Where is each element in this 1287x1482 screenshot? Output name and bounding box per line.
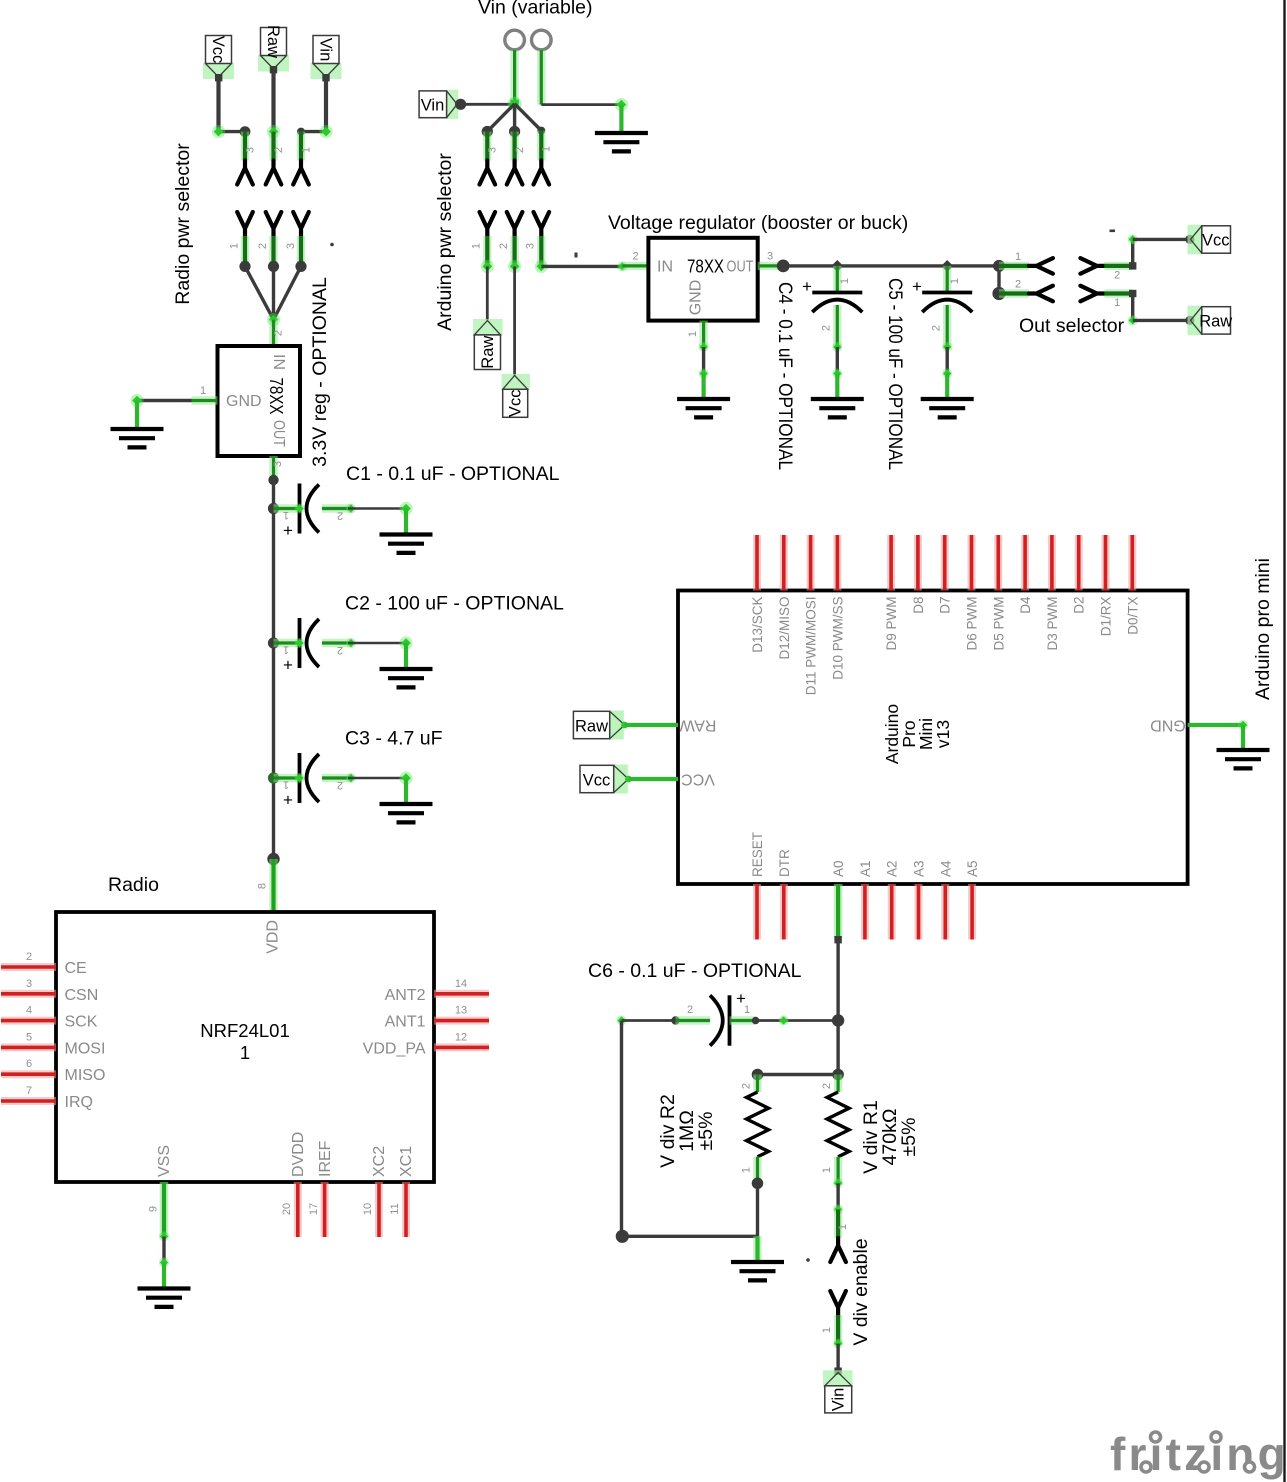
wire node to ground (divider) [753,1236,761,1262]
ground U4 [677,399,730,417]
svg-text:+: + [802,277,812,296]
ground (left 78XX) [111,429,164,447]
net flag Vin (radio selector) [311,36,342,80]
net flag Vcc (arduino left) [580,765,678,794]
node rail end junction [992,260,1005,300]
svg-text:3: 3 [487,147,499,153]
svg-text:Raw: Raw [264,25,282,58]
wire terminal2 down and to ground [541,50,628,133]
svg-text:1: 1 [821,1327,833,1333]
pin 10 XC2 [362,1146,388,1237]
svg-text:+: + [912,277,922,296]
wire R1 to V div enable [833,1183,843,1238]
svg-text:78XX: 78XX [266,378,286,415]
svg-text:3: 3 [525,243,537,249]
wire arduino GND to ground [1188,720,1248,750]
regulator U4 78XX (booster) [622,238,757,321]
capacitor C6 0.1uF polarized [617,989,839,1046]
svg-text:Vin: Vin [317,38,335,62]
svg-text:3: 3 [26,978,32,990]
svg-text:OUT: OUT [727,259,754,276]
svg-text:2: 2 [337,779,343,791]
svg-text:IRQ: IRQ [65,1094,93,1111]
svg-text:2: 2 [821,1083,833,1089]
svg-text:1: 1 [301,147,313,153]
svg-text:1: 1 [283,644,289,656]
ground C1 [380,535,433,553]
svg-text:20: 20 [281,1203,293,1215]
svg-text:Arduino pwr selector: Arduino pwr selector [434,153,456,331]
svg-text:C6 - 0.1 uF - OPTIONAL: C6 - 0.1 uF - OPTIONAL [588,960,802,982]
svg-text:Vin: Vin [830,1388,848,1412]
svg-text:Arduino pro mini: Arduino pro mini [1252,558,1274,700]
svg-text:1: 1 [283,509,289,521]
header J4 arduino selector bottom (3-pin female, forks up) [471,212,550,273]
svg-text:78XX: 78XX [687,257,724,277]
ground divider [731,1262,784,1280]
svg-text:GND: GND [1150,717,1186,734]
svg-text:4: 4 [26,1005,32,1017]
net flag Raw (radio selector) [258,25,289,72]
ground arduino GND [1217,750,1270,768]
connector terminal circle 1 [505,30,525,50]
resistor R1 470k [821,1075,849,1189]
ground C5 [921,399,974,417]
svg-text:GND: GND [226,393,262,410]
svg-text:3: 3 [285,243,297,249]
svg-text:3: 3 [245,147,257,153]
junction node to radio VDD [257,853,280,912]
header J1 radio selector top (3-pin female, forks down) [237,132,312,185]
svg-text:IN: IN [270,354,287,370]
wire Raw flag to header pin 2 [267,66,280,138]
wire GND pin1 to ground (left 78XX) [130,385,217,429]
svg-text:DVDD: DVDD [290,1132,307,1177]
wire R2 bottom to gnd rail [756,1183,759,1236]
svg-text:2: 2 [687,1004,693,1016]
wire to Vin flag (bottom) [834,1344,841,1375]
svg-text:Raw: Raw [479,336,497,369]
header J2 radio selector bottom (3-pin female, forks up) [229,212,334,266]
svg-text:3.3V reg - OPTIONAL: 3.3V reg - OPTIONAL [309,277,331,467]
svg-text:2: 2 [632,251,638,263]
pin 20 DVDD [281,1132,307,1237]
svg-text:ANT1: ANT1 [385,1014,426,1031]
svg-text:13: 13 [455,1005,467,1017]
svg-text:2: 2 [741,1083,753,1089]
pin 14 ANT2 [385,978,489,1004]
wire Vin flag to header pin 1 [297,74,333,138]
svg-text:2: 2 [273,330,285,336]
svg-text:2: 2 [498,243,510,249]
pin 17 IREF [308,1140,334,1237]
svg-text:C4 - 0.1 uF - OPTIONAL: C4 - 0.1 uF - OPTIONAL [774,282,796,470]
wire U4 GND pin1 to ground [687,321,709,399]
pin 7 IRQ [1,1085,93,1111]
wire C6 left leg down and across [616,1021,758,1243]
svg-text:2: 2 [1015,279,1021,291]
capacitor C5 100uF polarized [912,260,972,399]
svg-text:Voltage regulator (booster or: Voltage regulator (booster or buck) [608,212,908,234]
svg-text:11: 11 [389,1203,401,1214]
label R2 [657,1094,717,1168]
svg-text:1: 1 [741,1167,753,1173]
svg-text:9: 9 [148,1206,160,1212]
svg-text:ANT2: ANT2 [385,987,426,1004]
header J7 V div enable pin A (fork down) [830,1238,846,1262]
capacitor C4 0.1uF polarized [802,260,862,399]
svg-text:D10 PWM/SS: D10 PWM/SS [830,597,845,680]
net flag Vin (bottom) [823,1370,853,1413]
svg-text:1: 1 [471,243,483,249]
wire J6 pin2 to Vcc flag [1128,234,1195,269]
svg-text:D8: D8 [911,597,926,614]
svg-text:+: + [283,521,293,540]
wire J4 pin3 to regulator IN [541,253,627,272]
wire OUT pin3 down [268,456,284,859]
svg-text:8: 8 [257,883,269,889]
svg-text:NRF24L01: NRF24L01 [200,1020,289,1041]
pin 2 CE [1,951,87,977]
svg-text:1: 1 [1114,297,1120,309]
resistor R2 1M [741,1075,769,1190]
svg-text:D2: D2 [1072,597,1087,614]
svg-text:fritzing: fritzing [1110,1428,1287,1480]
fritzing watermark [1110,1428,1287,1480]
svg-text:+: + [283,656,293,675]
junction node A0/C6 [832,1014,844,1026]
svg-text:Vcc: Vcc [1202,232,1230,250]
svg-text:1: 1 [200,385,206,397]
svg-text:D6 PWM: D6 PWM [965,597,980,651]
svg-text:1: 1 [229,243,241,249]
svg-text:1: 1 [744,1004,750,1016]
svg-text:C1 - 0.1 uF - OPTIONAL: C1 - 0.1 uF - OPTIONAL [346,463,560,485]
svg-text:17: 17 [308,1203,320,1215]
svg-text:5: 5 [26,1031,32,1043]
header J3 arduino selector top (3-pin female, forks down) [480,131,553,185]
ground C3 [380,804,433,822]
svg-text:±5%: ±5% [898,1118,920,1157]
svg-text:Vcc: Vcc [507,390,525,418]
svg-text:XC2: XC2 [371,1146,388,1177]
net flag Vcc (arduino selector) [502,374,530,417]
net flag Vcc (radio selector) [203,36,234,80]
svg-text:2: 2 [514,147,526,153]
svg-text:2: 2 [337,644,343,656]
svg-text:A5: A5 [965,860,980,877]
svg-text:2: 2 [26,951,32,963]
header J5 out selector left (2-pin female, forks right) [999,251,1053,301]
net flag Raw (arduino left) [573,711,678,740]
capacitor C2 100uF polarized [268,618,413,675]
svg-text:D12/MISO: D12/MISO [777,597,792,660]
svg-text:±5%: ±5% [695,1112,717,1151]
svg-text:A4: A4 [938,860,953,877]
wires header J2 converge to regulator IN [239,261,306,326]
wire to divider node [752,1021,844,1081]
svg-text:Out selector: Out selector [1019,315,1125,337]
svg-text:D11 PWM/MOSI: D11 PWM/MOSI [804,597,819,696]
svg-text:v13: v13 [933,720,953,748]
right edge line [1283,0,1285,1482]
pin 11 XC1 [389,1146,415,1237]
svg-text:A0: A0 [831,860,846,877]
svg-text:D0/TX: D0/TX [1125,597,1140,635]
svg-text:GND: GND [688,280,705,316]
svg-text:Vcc: Vcc [209,36,227,64]
svg-text:1: 1 [541,146,553,152]
svg-text:IREF: IREF [317,1140,334,1177]
svg-text:14: 14 [455,978,467,990]
svg-text:Raw: Raw [575,718,608,736]
pin 9 VSS to ground [148,1145,174,1289]
net flag Raw (out selector) [1188,306,1233,336]
svg-text:MOSI: MOSI [65,1040,106,1057]
svg-text:+: + [283,791,293,810]
svg-text:Raw: Raw [1199,313,1232,331]
wire U4 OUT pin3 to rail [758,251,999,273]
regulator U2 78XX (3.3V) [218,320,301,456]
pin 5 MOSI [1,1031,105,1057]
svg-text:2: 2 [931,325,943,331]
tiny dot artifact [330,243,334,247]
svg-text:2: 2 [1114,270,1120,282]
svg-text:1: 1 [283,779,289,791]
header J6 out selector right (2-pin female, forks left) [1080,230,1132,310]
svg-text:D4: D4 [1018,596,1033,614]
pin 3 CSN [1,978,98,1004]
svg-text:1: 1 [949,278,961,284]
svg-text:OUT: OUT [270,420,287,447]
svg-text:7: 7 [26,1085,32,1097]
svg-text:CSN: CSN [65,987,99,1004]
svg-text:VCC: VCC [681,771,715,788]
svg-text:6: 6 [26,1058,32,1070]
capacitor C1 0.1uF polarized [268,484,413,541]
label R1 [860,1100,920,1174]
svg-text:DTR: DTR [777,849,792,877]
svg-text:D9 PWM: D9 PWM [884,597,899,651]
svg-text:1: 1 [837,1224,849,1230]
svg-text:3: 3 [272,461,284,467]
net flag Vcc (out selector) [1188,225,1231,255]
svg-text:SCK: SCK [65,1014,98,1031]
svg-text:D13/SCK: D13/SCK [750,597,765,653]
mcu U1 Arduino Pro Mini [678,591,1188,885]
ground VSS [138,1289,191,1307]
svg-text:2: 2 [257,243,269,249]
svg-text:Vin (variable): Vin (variable) [478,0,593,19]
radio U3 NRF24L01 [56,912,434,1182]
svg-text:CE: CE [65,960,87,977]
svg-text:2: 2 [337,510,343,522]
svg-text:RAW: RAW [679,717,717,734]
capacitor C3 4.7uF polarized [268,753,413,810]
svg-text:A2: A2 [885,860,900,877]
svg-text:10: 10 [362,1203,374,1215]
wire Vcc flag to header pin 3 [212,74,251,138]
connector terminal circle 2 [532,30,552,50]
svg-text:C3 - 4.7 uF: C3 - 4.7 uF [345,728,443,750]
svg-text:Radio: Radio [108,874,159,896]
wire J4 pin1 to Raw flag [486,266,489,320]
svg-text:2: 2 [273,147,285,153]
svg-text:Vin: Vin [421,97,445,115]
svg-text:XC1: XC1 [398,1146,415,1177]
tiny dot artifact [806,1258,810,1262]
svg-text:MISO: MISO [65,1067,106,1084]
svg-text:1: 1 [687,331,699,337]
svg-text:D1/RX: D1/RX [1099,597,1114,637]
ground C2 [380,669,433,687]
net flag Raw (arduino selector) [473,319,503,370]
wire J6 pin1 to Raw flag [1128,290,1195,326]
svg-text:Radio pwr selector: Radio pwr selector [172,143,194,305]
svg-text:RESET: RESET [750,832,765,877]
svg-text:VDD: VDD [265,920,282,954]
svg-text:A3: A3 [912,860,927,877]
ground (Vin variable) [595,133,648,151]
svg-text:D3 PWM: D3 PWM [1045,597,1060,651]
wire terminal1 down [510,50,518,104]
svg-text:C2 - 100 uF - OPTIONAL: C2 - 100 uF - OPTIONAL [345,593,564,615]
pin 4 SCK [1,1005,98,1031]
wire J4 pin2 to Vcc flag [513,266,516,375]
svg-text:1: 1 [1015,251,1021,263]
svg-text:1: 1 [240,1042,250,1063]
svg-text:D5 PWM: D5 PWM [991,597,1006,651]
svg-text:1: 1 [839,278,851,284]
fan wires to arduino selector header [482,104,546,137]
junction node Vin [508,97,522,111]
svg-text:12: 12 [455,1031,467,1043]
wire A0 down [834,936,841,1021]
arduino top pins D13..D0 [750,535,1140,695]
svg-text:3: 3 [767,251,773,263]
net flag Vin (variable input) [419,90,514,119]
svg-text:A1: A1 [858,860,873,877]
svg-text:C5 - 100 uF - OPTIONAL: C5 - 100 uF - OPTIONAL [884,278,906,470]
svg-text:D7: D7 [938,597,953,614]
svg-text:2: 2 [821,325,833,331]
svg-text:VSS: VSS [156,1145,173,1177]
svg-text:V div enable: V div enable [850,1238,872,1345]
svg-text:VDD_PA: VDD_PA [363,1040,426,1057]
svg-text:IN: IN [657,259,673,276]
svg-text:Vcc: Vcc [583,772,611,790]
pin 13 ANT1 [385,1005,489,1031]
pin 12 VDD_PA [363,1031,489,1057]
svg-text:1: 1 [821,1167,833,1173]
pin 6 MISO [1,1058,105,1084]
header J8 V div enable pin B (fork up) [821,1291,846,1349]
arduino bottom pins [750,832,980,940]
ground C4 [811,399,864,417]
